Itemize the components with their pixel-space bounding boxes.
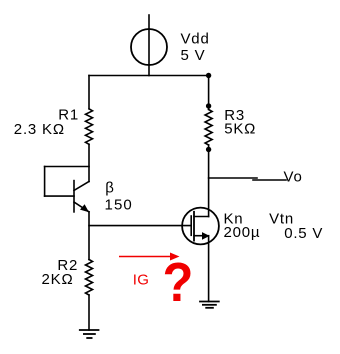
svg-text:IG: IG <box>133 272 149 289</box>
svg-text:150: 150 <box>105 196 133 213</box>
svg-text:5 V: 5 V <box>181 47 206 64</box>
svg-text:0.5 V: 0.5 V <box>284 225 323 242</box>
svg-text:5KΩ: 5KΩ <box>224 121 256 138</box>
svg-text:2.3 KΩ: 2.3 KΩ <box>14 121 65 138</box>
svg-text:2KΩ: 2KΩ <box>42 271 74 288</box>
svg-text:Vdd: Vdd <box>181 30 210 47</box>
svg-text:200µ: 200µ <box>224 224 261 241</box>
svg-text:Vo: Vo <box>284 168 303 185</box>
svg-text:?: ? <box>163 252 194 313</box>
svg-text:β: β <box>105 180 114 197</box>
